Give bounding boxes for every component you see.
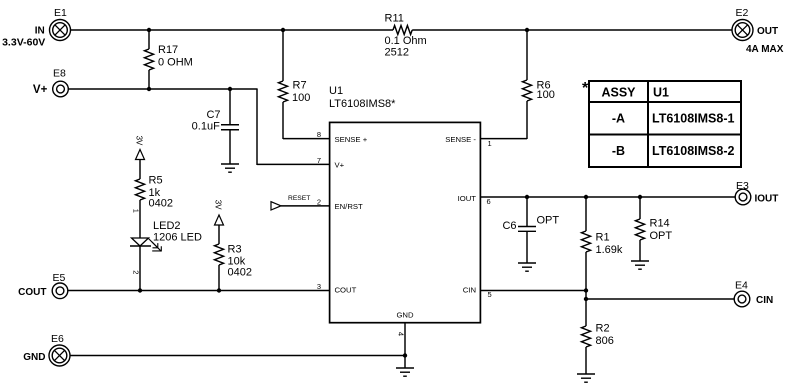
terminal E1 (IN) xyxy=(2,7,70,49)
wire R1/R2 to E4 xyxy=(586,291,734,300)
svg-text:R11: R11 xyxy=(385,13,404,25)
svg-text:1.69k: 1.69k xyxy=(596,244,623,256)
resistor R11 xyxy=(385,13,427,59)
svg-text:1: 1 xyxy=(132,209,141,213)
svg-text:R3: R3 xyxy=(228,243,242,255)
svg-text:V+: V+ xyxy=(335,161,345,170)
svg-text:E2: E2 xyxy=(736,7,749,19)
svg-text:EN/RST: EN/RST xyxy=(335,202,363,211)
resistor R7 xyxy=(279,30,311,139)
svg-text:R7: R7 xyxy=(293,80,307,92)
terminal E3 (IOUT) xyxy=(735,180,778,205)
resistor R6 xyxy=(523,30,555,139)
pin label GND xyxy=(396,311,414,320)
reset input symbol xyxy=(271,195,329,210)
svg-text:1206 LED: 1206 LED xyxy=(153,232,202,244)
pin label CIN xyxy=(463,286,476,295)
svg-text:2512: 2512 xyxy=(385,47,409,59)
junction IOUT / C6 xyxy=(525,195,529,199)
svg-text:8: 8 xyxy=(317,130,321,139)
svg-text:6: 6 xyxy=(487,197,491,206)
wire LED2 to COUT net xyxy=(139,246,141,291)
junction GND net xyxy=(403,353,407,357)
wire E1 to R11 xyxy=(71,29,394,31)
svg-text:100: 100 xyxy=(537,89,555,101)
svg-text:SENSE -: SENSE - xyxy=(445,135,476,144)
ground (R14) xyxy=(631,261,649,269)
resistor R14 xyxy=(636,197,673,261)
svg-text:*: * xyxy=(582,80,589,97)
wire CIN net (U1 pin 5 to R1/R2) xyxy=(481,290,587,292)
capacitor C6 xyxy=(502,197,559,263)
wire R5 to LED2 xyxy=(139,200,141,238)
svg-text:IOUT: IOUT xyxy=(458,194,477,203)
wire IOUT net (U1 pin 6 to E3) xyxy=(481,196,736,198)
svg-text:GND: GND xyxy=(23,352,45,363)
assembly option table xyxy=(582,80,741,167)
resistor R17 xyxy=(145,30,193,89)
pin number 7 xyxy=(317,156,321,165)
junction IOUT / R1 xyxy=(584,195,588,199)
svg-text:LT6108IMS8-2: LT6108IMS8-2 xyxy=(652,144,734,158)
ground (C7) xyxy=(221,164,239,172)
svg-text:C6: C6 xyxy=(502,220,516,232)
svg-text:E4: E4 xyxy=(735,280,748,292)
pin number 1 (LED2, rotated) xyxy=(132,209,141,213)
pin label COUT xyxy=(335,286,357,295)
wire GND net (E6 to U1 pin 4) xyxy=(70,355,405,357)
svg-text:806: 806 xyxy=(596,335,614,347)
resistor R3 xyxy=(215,225,252,291)
pin number 2 (LED2, rotated) xyxy=(132,270,141,274)
power arrow 3V (R3) xyxy=(214,200,224,225)
svg-text:SENSE +: SENSE + xyxy=(335,135,368,144)
svg-text:U1: U1 xyxy=(329,85,343,97)
svg-text:0.1 Ohm: 0.1 Ohm xyxy=(385,35,427,47)
svg-text:-B: -B xyxy=(612,144,625,158)
svg-text:E8: E8 xyxy=(53,68,66,80)
svg-text:3V: 3V xyxy=(214,200,223,210)
svg-text:2: 2 xyxy=(132,270,141,274)
svg-text:OPT: OPT xyxy=(650,230,673,242)
svg-text:R2: R2 xyxy=(596,323,610,335)
resistor R1 xyxy=(582,197,623,291)
svg-text:R14: R14 xyxy=(650,218,670,230)
svg-text:OPT: OPT xyxy=(537,215,560,227)
terminal E2 (OUT) xyxy=(732,7,784,55)
svg-text:GND: GND xyxy=(396,311,414,320)
resistor R2 xyxy=(582,299,614,374)
svg-text:R17: R17 xyxy=(158,44,178,56)
wire V+ net (E8 to U1 pin 7) xyxy=(68,89,329,165)
junction IOUT / R14 xyxy=(638,195,642,199)
pin label IOUT xyxy=(458,194,477,203)
svg-text:7: 7 xyxy=(317,156,321,165)
resistor R5 xyxy=(136,160,173,210)
svg-text:LED2: LED2 xyxy=(153,220,181,232)
svg-text:R5: R5 xyxy=(149,175,163,187)
ground (U1 GND) xyxy=(396,368,414,376)
power arrow 3V (R5) xyxy=(134,136,144,160)
pin number 4 (rotated) xyxy=(396,332,405,336)
svg-text:LT6108IMS8*: LT6108IMS8* xyxy=(329,98,396,110)
junction V+ / R17 xyxy=(147,87,151,91)
junction V+ / C7 xyxy=(228,87,232,91)
ground (R2) xyxy=(577,374,595,382)
svg-text:3.3V-60V: 3.3V-60V xyxy=(2,37,45,49)
pin label SENSE+ xyxy=(335,135,368,144)
wire COUT net (E5 to U1 pin 3) xyxy=(68,290,330,292)
svg-text:E3: E3 xyxy=(736,180,749,192)
svg-text:U1: U1 xyxy=(653,86,669,100)
svg-text:CIN: CIN xyxy=(756,295,773,306)
svg-text:E6: E6 xyxy=(51,333,64,345)
pin number 2 xyxy=(317,198,321,207)
svg-text:IOUT: IOUT xyxy=(755,193,779,204)
terminal E8 (V+) xyxy=(33,68,68,97)
svg-text:-A: -A xyxy=(612,112,625,126)
terminal E6 (GND) xyxy=(23,333,70,366)
svg-text:ASSY: ASSY xyxy=(601,86,636,100)
pin label SENSE- xyxy=(445,135,476,144)
svg-text:0.1uF: 0.1uF xyxy=(192,120,220,132)
svg-text:0402: 0402 xyxy=(149,198,173,210)
junction COUT / R3 xyxy=(217,288,221,292)
svg-text:COUT: COUT xyxy=(335,286,357,295)
pin number 8 xyxy=(317,130,321,139)
svg-text:0 OHM: 0 OHM xyxy=(158,57,193,69)
LED LED2 xyxy=(130,220,202,251)
junction CIN / E4 wire xyxy=(584,297,588,301)
terminal E5 (COUT) xyxy=(18,272,68,299)
ground (C6) xyxy=(518,263,536,271)
svg-text:E1: E1 xyxy=(54,7,67,19)
wire R7 to U1 pin 8 xyxy=(283,138,329,140)
pin label V+ xyxy=(335,161,345,170)
pin number 3 xyxy=(317,282,321,291)
svg-text:OUT: OUT xyxy=(757,26,778,37)
svg-text:100: 100 xyxy=(292,92,310,104)
wire R6 to U1 pin 1 xyxy=(481,138,528,140)
pin number 6 xyxy=(487,197,491,206)
junction CIN / R1 xyxy=(584,288,588,292)
pin label EN/RST xyxy=(335,202,363,211)
junction top wire / R17 xyxy=(147,28,151,32)
svg-text:0402: 0402 xyxy=(228,267,252,279)
junction COUT / LED2 xyxy=(138,288,142,292)
wire U1 GND pin xyxy=(404,323,406,368)
svg-text:4: 4 xyxy=(396,332,405,336)
svg-text:3V: 3V xyxy=(134,136,143,146)
junction top wire / R6 xyxy=(525,28,529,32)
svg-text:4A MAX: 4A MAX xyxy=(746,44,784,55)
svg-text:V+: V+ xyxy=(33,84,48,96)
junction top wire / R7 xyxy=(281,28,285,32)
svg-text:LT6108IMS8-1: LT6108IMS8-1 xyxy=(652,112,734,126)
op-amp U1 (LT6108IMS8*) xyxy=(329,85,480,323)
capacitor C7 xyxy=(192,89,239,164)
svg-text:IN: IN xyxy=(35,26,45,37)
svg-text:5: 5 xyxy=(488,290,492,299)
svg-text:C7: C7 xyxy=(206,109,220,121)
pin number 1 xyxy=(488,139,492,148)
svg-text:CIN: CIN xyxy=(463,286,476,295)
svg-text:3: 3 xyxy=(317,282,321,291)
terminal E4 (CIN) xyxy=(734,280,773,307)
svg-text:R1: R1 xyxy=(596,232,610,244)
wire R11 to E2 xyxy=(412,29,732,31)
svg-text:RESET: RESET xyxy=(288,195,310,202)
svg-text:1: 1 xyxy=(488,139,492,148)
svg-text:E5: E5 xyxy=(53,272,66,284)
pin number 5 xyxy=(488,290,492,299)
svg-text:COUT: COUT xyxy=(18,287,46,298)
